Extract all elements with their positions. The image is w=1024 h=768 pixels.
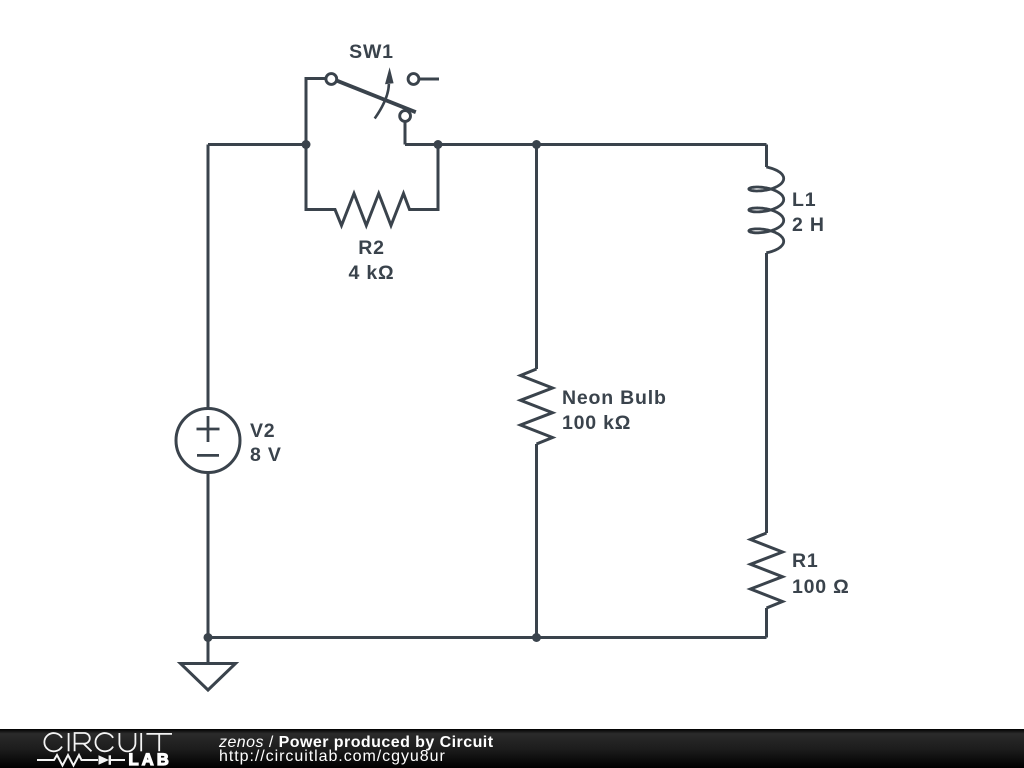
wire right rail bottom lead xyxy=(765,608,768,638)
wire switch right throw stub xyxy=(420,78,439,81)
wire bottom xyxy=(208,636,767,639)
wire right rail top lead xyxy=(765,145,768,168)
ground xyxy=(207,638,210,664)
switch SW1 pole circle xyxy=(326,74,337,85)
footer bar xyxy=(0,729,1024,768)
resistor R2 xyxy=(306,145,438,226)
wire neon bottom lead xyxy=(535,444,538,638)
wire left rail lower xyxy=(207,472,210,637)
svg-text:LAB: LAB xyxy=(129,751,173,768)
logo resistor-diode squiggle xyxy=(37,755,98,766)
voltage source V2 xyxy=(176,409,240,473)
wire top left segment xyxy=(208,143,306,146)
wire top right segment xyxy=(405,143,767,146)
switch SW1 moving contact circle xyxy=(400,111,411,122)
junction dot at switch right node xyxy=(434,140,443,149)
svg-text:4 kΩ: 4 kΩ xyxy=(349,262,395,284)
svg-text:R2: R2 xyxy=(358,237,385,259)
logo letter U xyxy=(119,733,135,751)
switch SW1 arrowhead xyxy=(385,67,394,84)
svg-text:Neon Bulb: Neon Bulb xyxy=(562,387,667,409)
wire left rail upper xyxy=(207,145,210,409)
svg-text:SW1: SW1 xyxy=(349,41,394,63)
wire right rail between L1 and R1 xyxy=(765,253,768,533)
resistor R1 xyxy=(751,533,783,608)
inductor L1 xyxy=(749,167,784,253)
V2 plus sign xyxy=(197,416,220,455)
junction dot at switch left node xyxy=(302,140,311,149)
wire neon top lead xyxy=(535,145,538,370)
logo letter I xyxy=(68,733,70,751)
wire switch left pole lead xyxy=(306,79,325,145)
svg-text:2 H: 2 H xyxy=(792,214,825,236)
switch SW1 right throw circle xyxy=(408,74,419,85)
logo letter C xyxy=(44,733,62,751)
logo letter C xyxy=(95,733,113,751)
logo letter R xyxy=(75,733,92,751)
junction dot at neon bottom node xyxy=(532,633,541,642)
svg-text:8 V: 8 V xyxy=(250,444,282,466)
resistor Neon Bulb xyxy=(521,369,553,444)
svg-text:100 kΩ: 100 kΩ xyxy=(562,412,631,434)
switch SW1 arrow xyxy=(375,84,389,119)
logo letter T xyxy=(146,734,172,751)
junction dot at neon top node xyxy=(532,140,541,149)
svg-text:L1: L1 xyxy=(792,189,816,211)
switch SW1 arm xyxy=(337,81,416,113)
footer credit text xyxy=(219,736,493,765)
svg-text:100 Ω: 100 Ω xyxy=(792,576,850,598)
V2 minus sign xyxy=(197,454,219,457)
svg-text:R1: R1 xyxy=(792,550,819,572)
junction dot at ground node xyxy=(204,633,213,642)
logo diode triangle xyxy=(99,755,110,765)
svg-text:V2: V2 xyxy=(250,420,275,442)
CircuitLab logo xyxy=(0,729,200,768)
logo letter I xyxy=(140,733,142,751)
wire switch moving contact lead xyxy=(404,122,407,145)
